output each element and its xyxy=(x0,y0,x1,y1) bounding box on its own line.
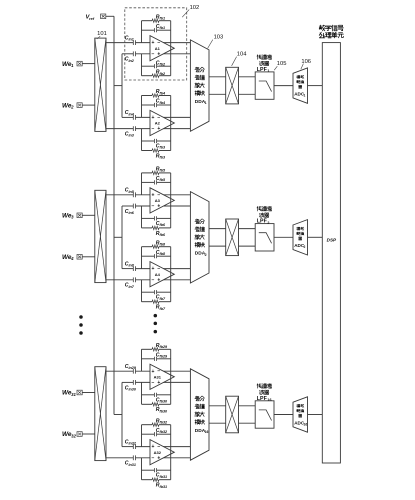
svg-text:1: 1 xyxy=(304,93,306,97)
svg-text:2: 2 xyxy=(267,221,269,225)
svg-text:103: 103 xyxy=(214,34,224,40)
svg-text:16: 16 xyxy=(267,398,271,402)
svg-text:+: + xyxy=(157,126,160,132)
svg-text:fb4: fb4 xyxy=(160,91,166,95)
svg-text:fb3: fb3 xyxy=(160,146,166,150)
svg-text:in1: in1 xyxy=(129,38,134,42)
svg-text:in29: in29 xyxy=(129,366,137,370)
svg-text:16: 16 xyxy=(205,430,209,434)
svg-text:LPF: LPF xyxy=(257,67,268,73)
svg-text:fb32: fb32 xyxy=(160,421,169,425)
svg-text:+: + xyxy=(157,455,160,461)
svg-text:fb7: fb7 xyxy=(160,307,166,311)
svg-text:106: 106 xyxy=(301,59,311,65)
svg-text:−: − xyxy=(152,51,155,57)
svg-text:101: 101 xyxy=(97,31,107,37)
svg-text:+: + xyxy=(157,204,160,210)
svg-text:−: − xyxy=(152,126,155,132)
svg-text:fb31: fb31 xyxy=(160,475,168,479)
svg-text:−: − xyxy=(152,380,155,386)
svg-text:fb30: fb30 xyxy=(160,400,169,404)
svg-text:fb6: fb6 xyxy=(160,233,166,237)
svg-text:fb3: fb3 xyxy=(160,156,166,160)
svg-text:104: 104 xyxy=(237,52,247,58)
svg-text:fb1: fb1 xyxy=(160,26,166,30)
svg-text:−: − xyxy=(152,455,155,461)
svg-text:LPF: LPF xyxy=(257,219,268,225)
svg-text:+: + xyxy=(157,51,160,57)
svg-text:fb30: fb30 xyxy=(160,409,169,413)
svg-text:+: + xyxy=(157,277,160,283)
svg-text:in30: in30 xyxy=(129,388,137,392)
svg-text:A4: A4 xyxy=(155,272,161,277)
svg-text:fb8: fb8 xyxy=(160,243,166,247)
svg-text:fb4: fb4 xyxy=(160,101,166,105)
svg-text:32: 32 xyxy=(71,433,76,438)
svg-text:fb8: fb8 xyxy=(160,252,166,256)
svg-text:A2: A2 xyxy=(155,121,161,126)
svg-text:fb5: fb5 xyxy=(160,178,166,182)
svg-text:fb31: fb31 xyxy=(160,485,168,489)
svg-text:fb1: fb1 xyxy=(160,17,166,21)
svg-text:fb7: fb7 xyxy=(160,297,166,301)
svg-text:in4: in4 xyxy=(129,112,134,116)
svg-text:ref: ref xyxy=(89,16,95,21)
svg-text:DSP: DSP xyxy=(327,237,337,242)
svg-text:A32: A32 xyxy=(154,450,162,455)
svg-text:2: 2 xyxy=(205,253,207,257)
svg-text:102: 102 xyxy=(190,5,200,11)
svg-text:in32: in32 xyxy=(129,442,137,446)
svg-text:+: + xyxy=(157,380,160,386)
svg-text:LPF: LPF xyxy=(257,396,268,402)
svg-text:2: 2 xyxy=(304,245,306,249)
svg-text:A31: A31 xyxy=(154,374,162,379)
svg-text:A3: A3 xyxy=(155,198,161,203)
svg-text:−: − xyxy=(152,204,155,210)
svg-text:A1: A1 xyxy=(155,46,161,51)
svg-text:fb2: fb2 xyxy=(160,72,166,76)
svg-text:31: 31 xyxy=(71,392,76,397)
svg-text:−: − xyxy=(152,277,155,283)
svg-text:16: 16 xyxy=(304,422,308,426)
svg-text:fb29: fb29 xyxy=(160,355,169,359)
svg-text:fb29: fb29 xyxy=(160,345,169,349)
svg-text:fb2: fb2 xyxy=(160,63,166,67)
svg-text:fb6: fb6 xyxy=(160,223,166,227)
svg-text:1: 1 xyxy=(205,101,207,105)
svg-text:1: 1 xyxy=(267,69,269,73)
svg-text:105: 105 xyxy=(277,61,287,67)
svg-text:fb32: fb32 xyxy=(160,430,169,434)
svg-text:in31: in31 xyxy=(129,463,136,467)
svg-text:fb5: fb5 xyxy=(160,169,166,173)
